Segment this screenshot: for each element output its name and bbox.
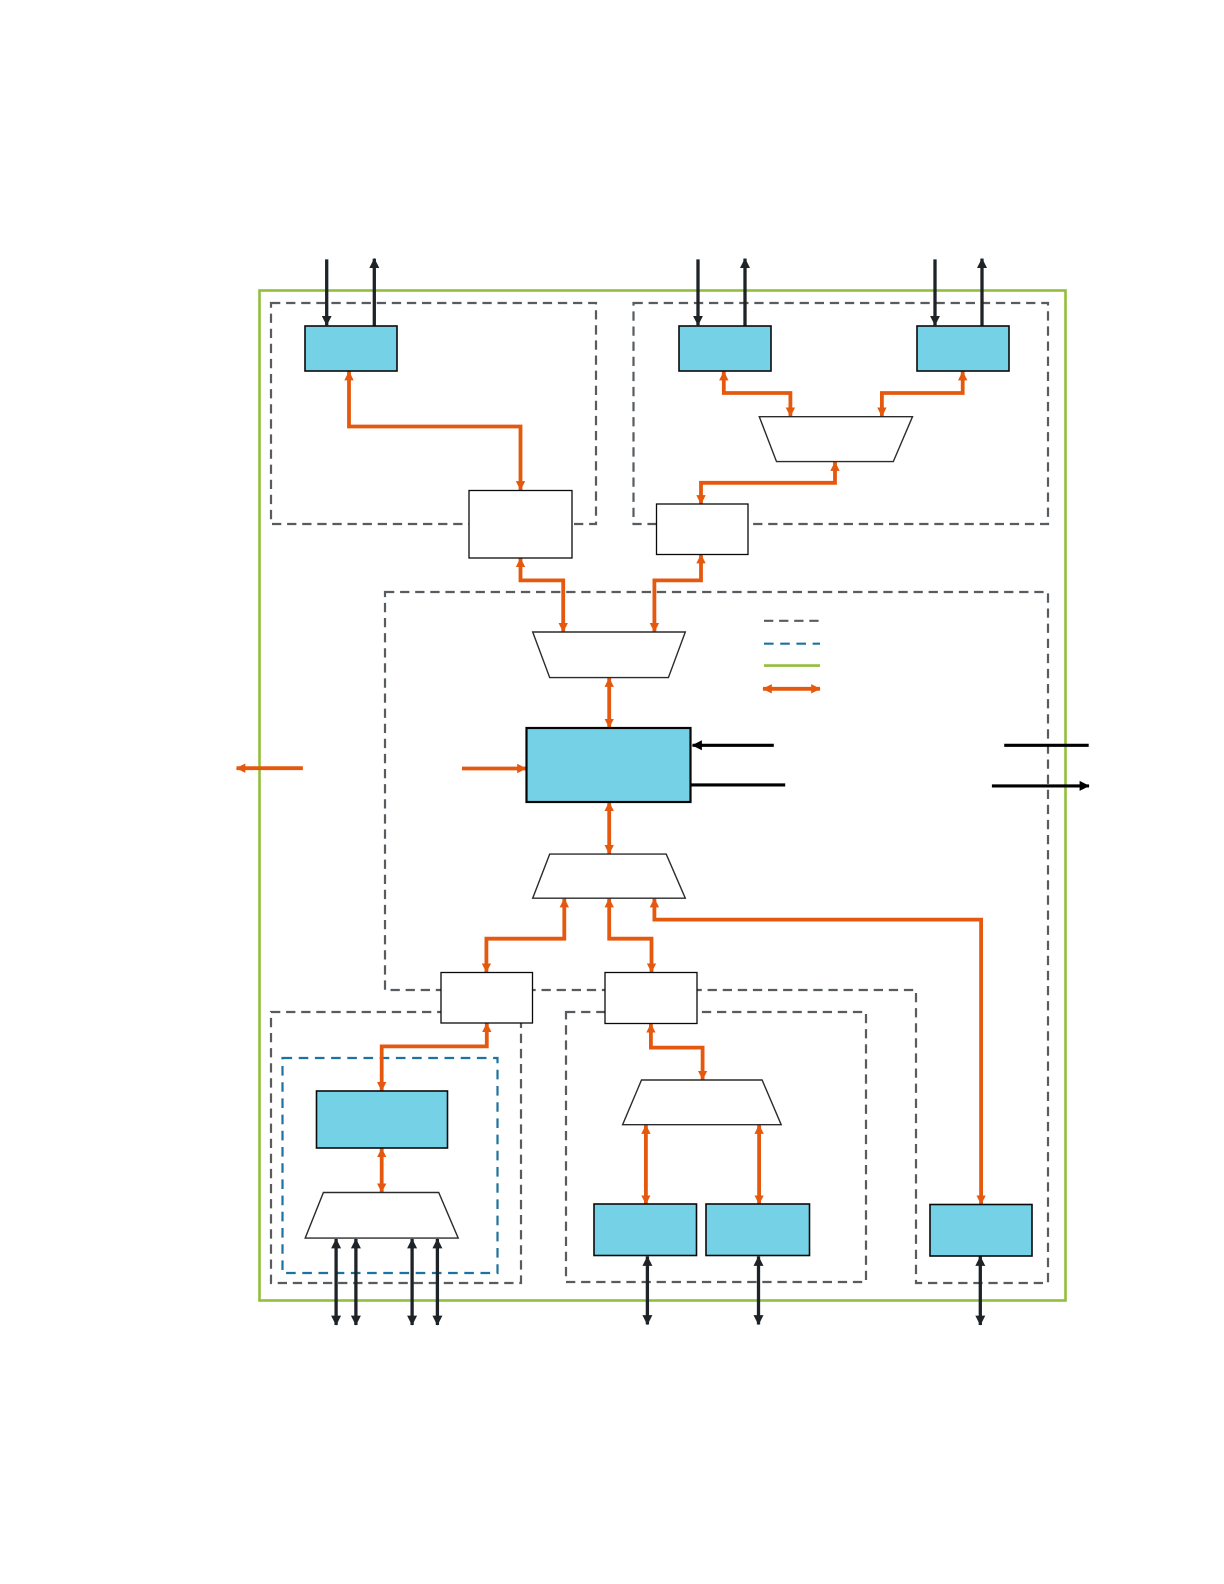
black line crossing right border upper bbox=[1004, 744, 1088, 747]
legend sample gray dashed bbox=[764, 620, 820, 622]
wire: orange link cyan1 to box A bbox=[349, 372, 521, 491]
legend sample green solid bbox=[764, 664, 820, 667]
black line from cyan4 right lower bbox=[691, 783, 786, 786]
black double arrow pin4 under mux T5 bbox=[436, 1239, 439, 1325]
black double arrow pin2 under mux T5 bbox=[354, 1239, 357, 1325]
wire: orange link box D to mux T4 bbox=[651, 1024, 703, 1080]
dashed box: top-left clock-source section bbox=[271, 303, 596, 524]
wire: orange vertical mux T4 to cyan7 bbox=[757, 1125, 761, 1204]
wire: orange link mux T3 to box D bbox=[609, 899, 651, 973]
cyan box 7 bottom-middle module B bbox=[706, 1204, 810, 1256]
dashed box: bottom-left section bbox=[271, 1012, 521, 1283]
cyan box 3 top-right oscillator B bbox=[917, 326, 1009, 371]
legend sample blue dashed bbox=[764, 643, 820, 645]
wire: orange arrow exiting left border bbox=[237, 766, 303, 770]
green chip boundary bbox=[260, 291, 1066, 1301]
black double arrow under cyan6 bbox=[646, 1257, 649, 1325]
wire: orange link cyan2 to mux T1 bbox=[724, 372, 791, 417]
black double arrow under cyan8 bbox=[979, 1257, 982, 1326]
white box D divider mid-right bbox=[605, 973, 697, 1024]
black down arrow into cyan1 bbox=[325, 259, 328, 325]
black double arrow under cyan7 bbox=[757, 1257, 760, 1325]
black up arrow from cyan1 bbox=[373, 259, 376, 326]
cyan box 6 bottom-middle module A bbox=[594, 1204, 697, 1256]
mux T5 bottom-left bbox=[305, 1193, 458, 1239]
wire: orange link box B to mux T2 bbox=[654, 555, 701, 632]
dashed box: top-right clock-source section bbox=[634, 303, 1049, 524]
black down arrow into cyan3 bbox=[933, 259, 936, 325]
wire: orange link box A to mux T2 bbox=[521, 558, 564, 632]
wire: orange vertical mux T2 to cyan4 bbox=[607, 678, 611, 728]
black double arrow pin1 under mux T5 bbox=[334, 1239, 337, 1325]
wire: orange vertical cyan5 to mux T5 bbox=[380, 1148, 384, 1192]
black up arrow from cyan2 bbox=[743, 259, 746, 326]
cyan box 4 central core bbox=[527, 728, 691, 802]
cyan box 1 top-left oscillator bbox=[305, 326, 397, 371]
cyan box 5 bottom-left module bbox=[317, 1091, 448, 1148]
dashed box: blue inner section bottom-left bbox=[283, 1058, 498, 1273]
wire: orange link mux T3 to box C bbox=[486, 899, 564, 973]
mux T2 center upper bbox=[533, 632, 686, 678]
black arrow crossing right border lower bbox=[992, 784, 1089, 787]
cyan box 2 top-right oscillator A bbox=[679, 326, 771, 371]
dashed box: bottom-middle section bbox=[566, 1012, 866, 1282]
black arrow into cyan4 right upper bbox=[693, 744, 774, 747]
wire: orange vertical mux T4 to cyan6 bbox=[644, 1125, 648, 1204]
mux T4 bottom-middle bbox=[623, 1080, 782, 1125]
white box C divider mid-left bbox=[441, 973, 533, 1024]
black down arrow into cyan2 bbox=[696, 259, 699, 325]
black up arrow from cyan3 bbox=[980, 259, 983, 326]
wire: orange long feedback mux T3 to cyan8 bbox=[654, 899, 981, 1205]
wire: orange link mux T1 to box B bbox=[701, 462, 835, 504]
wire: orange arrow into cyan4 left bbox=[462, 767, 526, 771]
wire: orange vertical cyan4 to mux T3 bbox=[607, 802, 611, 854]
wire: orange link box C to cyan5 bbox=[382, 1023, 487, 1091]
cyan box 8 bottom-right module bbox=[930, 1205, 1032, 1257]
black double arrow pin3 under mux T5 bbox=[410, 1239, 413, 1325]
white box A divider top-left bbox=[469, 491, 572, 559]
wire: orange link cyan3 to mux T1 bbox=[882, 372, 963, 417]
mux T1 top-right bbox=[759, 417, 912, 462]
mux T3 center lower bbox=[533, 854, 686, 898]
dashed region: central L-shaped section bbox=[385, 592, 1048, 1283]
white box B divider top-right bbox=[657, 504, 749, 555]
legend sample orange double arrow bbox=[763, 687, 820, 691]
